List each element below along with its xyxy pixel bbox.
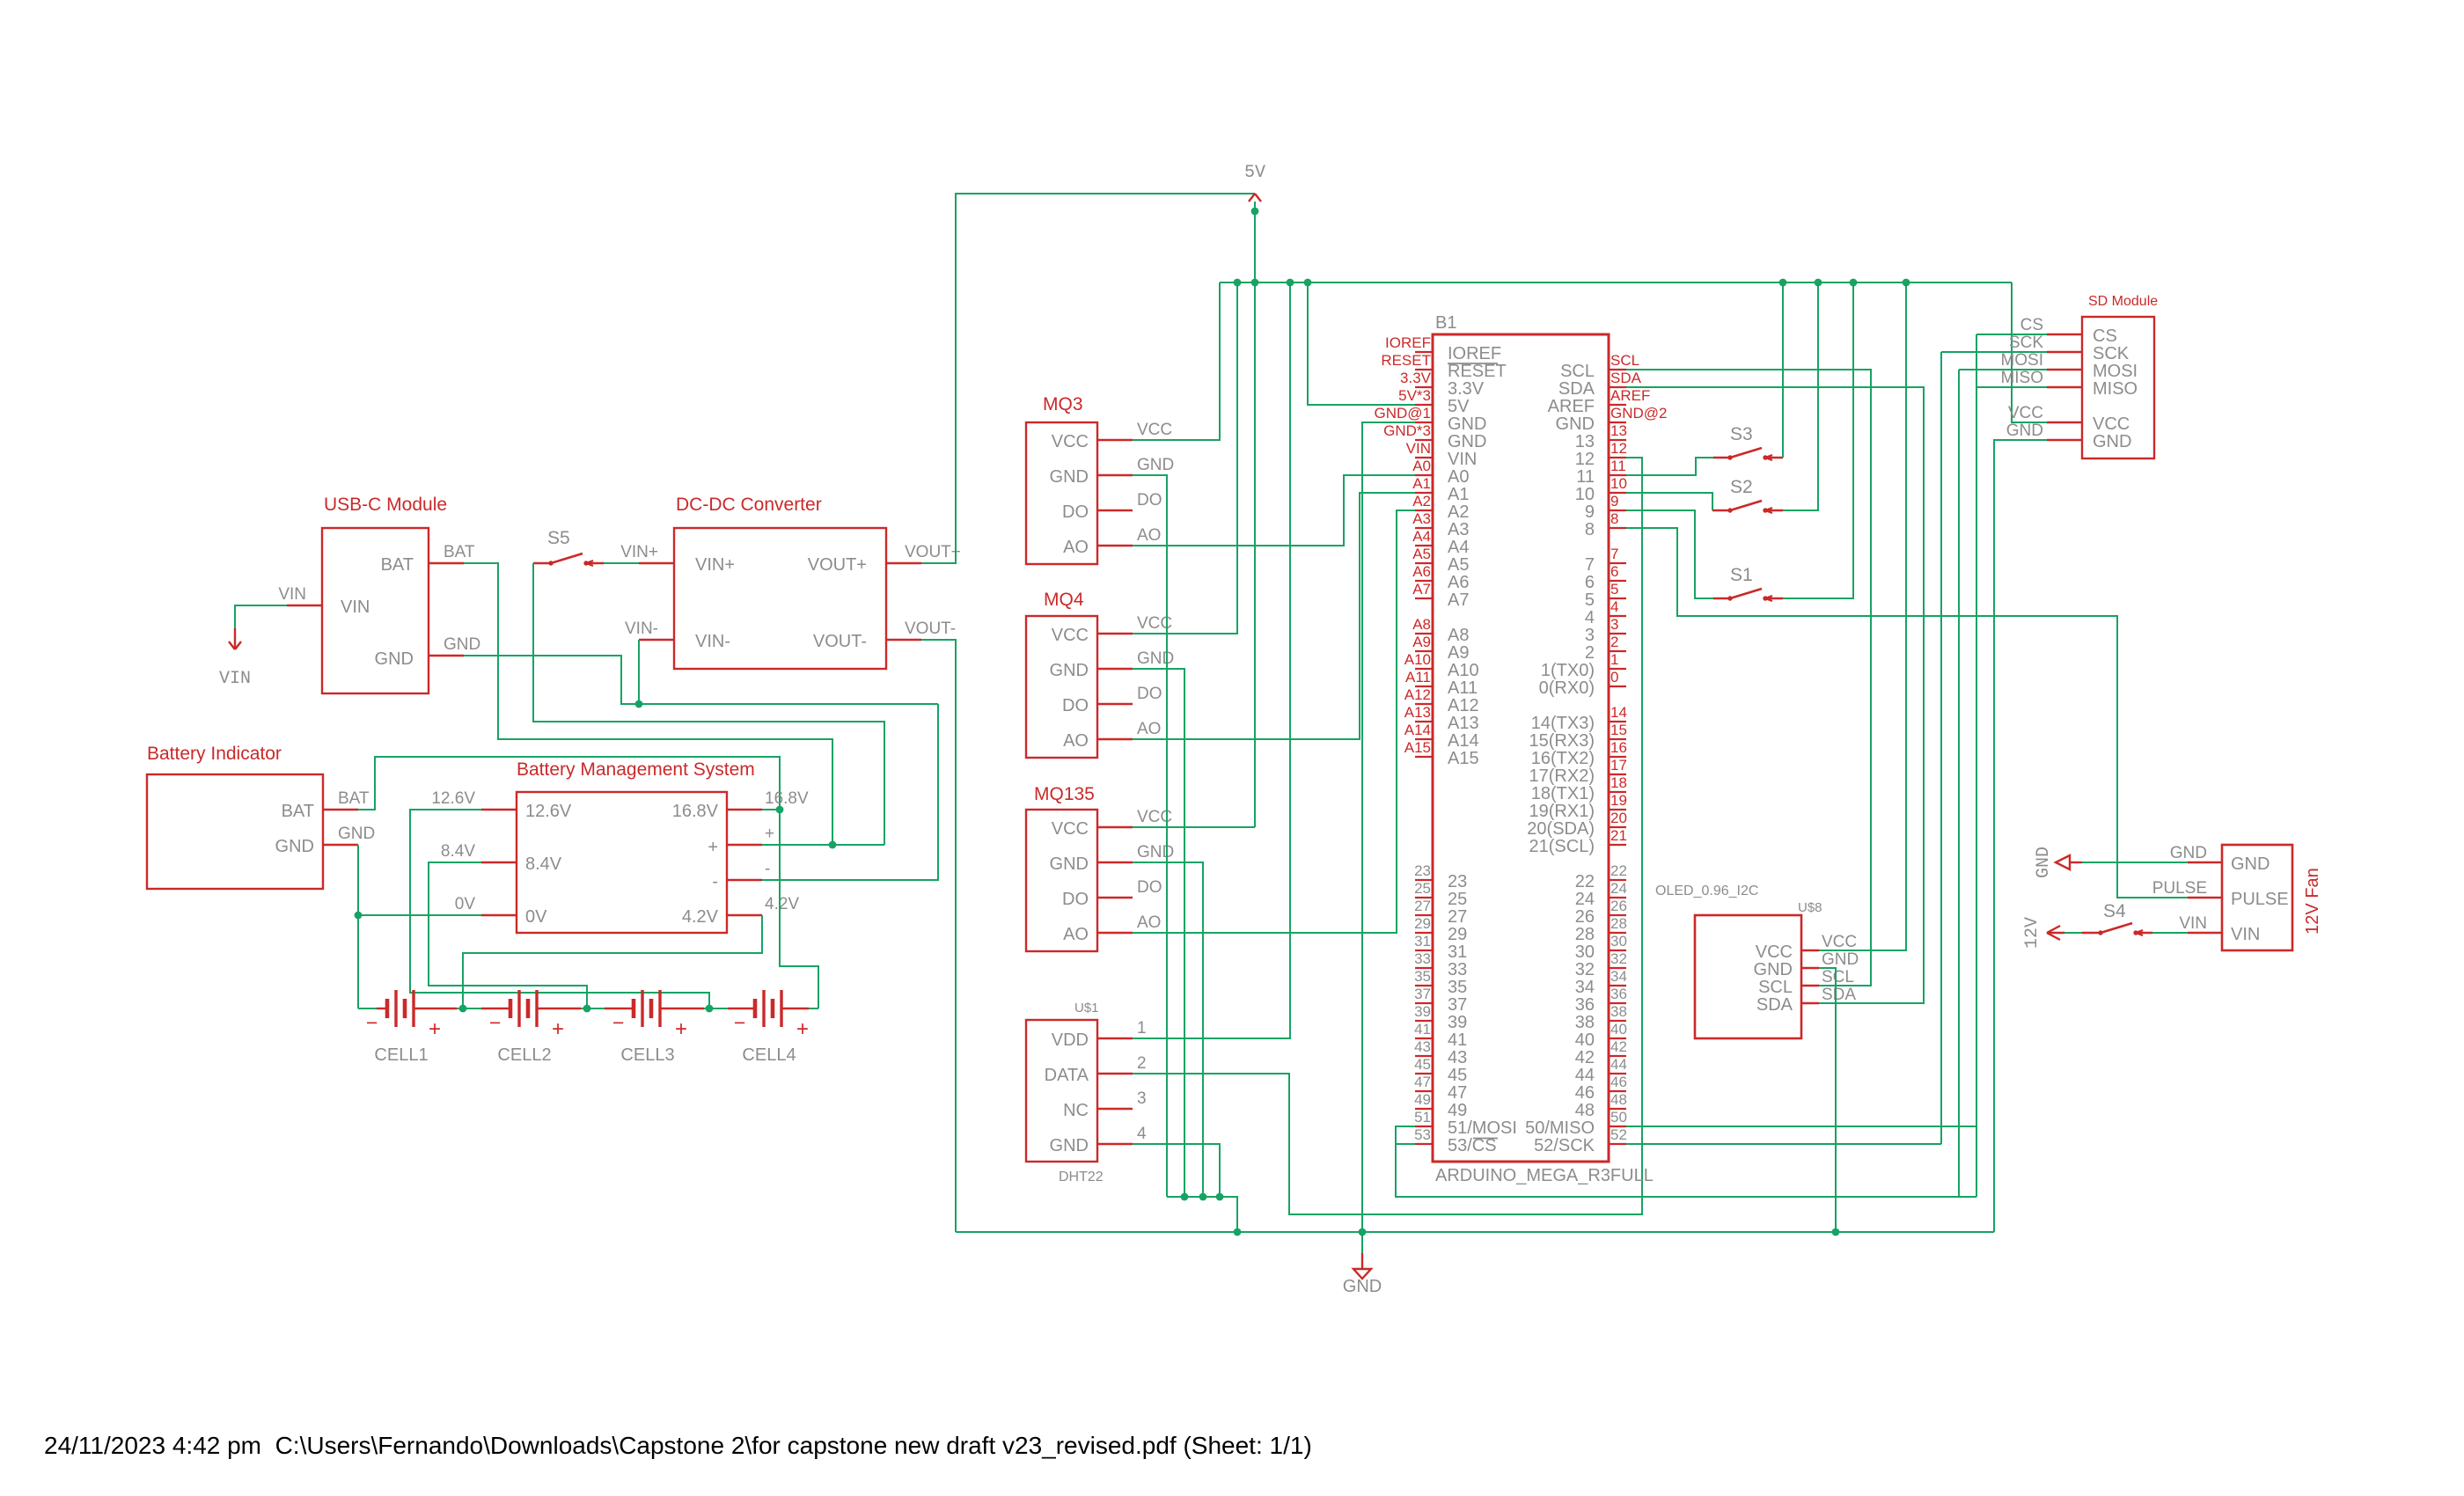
svg-text:GND: GND — [375, 649, 414, 669]
pin 40 right of B1 — [1609, 1038, 1626, 1039]
wire pin9 to S1 — [1626, 510, 1713, 598]
svg-text:3: 3 — [1137, 1089, 1147, 1108]
svg-text:VDD: VDD — [1052, 1030, 1089, 1050]
svg-text:SDA: SDA — [1822, 986, 1856, 1004]
Arduino RESET overline — [1448, 363, 1498, 364]
svg-text:GND: GND — [1137, 843, 1174, 862]
pin A1 left of B1 — [1415, 492, 1433, 494]
svg-text:20(SDA): 20(SDA) — [1527, 819, 1595, 839]
svg-text:31: 31 — [1414, 933, 1431, 950]
svg-text:51: 51 — [1414, 1109, 1431, 1126]
pin 3 right of B1 — [1609, 633, 1626, 634]
wire net pin51 MOSI — [1396, 1126, 1976, 1197]
ground symbol GND — [1361, 1253, 1363, 1269]
svg-text:7: 7 — [1610, 546, 1618, 562]
svg-text:GND@1: GND@1 — [1375, 405, 1432, 422]
pin 9 right of B1 — [1609, 510, 1626, 511]
wire S4 to fan VIN — [2152, 932, 2188, 934]
svg-text:A1: A1 — [1448, 485, 1469, 504]
pin 25 left of B1 — [1415, 897, 1433, 898]
wire net pin8 to fan PULSE — [1626, 528, 2188, 898]
svg-text:A14: A14 — [1448, 731, 1479, 751]
svg-text:28: 28 — [1575, 925, 1595, 944]
pin 4.2V of BMS — [727, 914, 762, 916]
wire SD MISO stub to riser — [1976, 386, 2047, 388]
pin A7 left of B1 — [1415, 598, 1433, 599]
svg-text:DO: DO — [1137, 685, 1162, 703]
svg-text:BAT: BAT — [381, 555, 414, 575]
svg-text:GND: GND — [1137, 649, 1174, 668]
svg-text:2: 2 — [1610, 634, 1618, 650]
pin AREF right of B1 — [1609, 404, 1626, 406]
svg-text:15: 15 — [1610, 722, 1627, 738]
wire MQ3 AO to A0 — [1133, 475, 1415, 546]
svg-text:7: 7 — [1585, 555, 1595, 575]
pin 32 right of B1 — [1609, 967, 1626, 969]
pin 34 right of B1 — [1609, 985, 1626, 986]
svg-text:GND: GND — [275, 837, 314, 856]
svg-text:VCC: VCC — [2093, 414, 2130, 434]
wire 5V drop to MQ4 VCC — [1133, 282, 1237, 634]
pin GND of 12V Fan — [2188, 862, 2222, 863]
svg-text:26: 26 — [1575, 907, 1595, 927]
svg-text:47: 47 — [1448, 1083, 1467, 1103]
svg-text:IOREF: IOREF — [1448, 344, 1501, 363]
pin VCC of MQ3 — [1097, 439, 1133, 441]
pin 16 right of B1 — [1609, 756, 1626, 758]
svg-text:VIN: VIN — [1448, 450, 1477, 469]
svg-text:GND@2: GND@2 — [1610, 405, 1668, 422]
svg-text:VIN+: VIN+ — [695, 555, 735, 575]
supply symbol 12V arrow — [2047, 926, 2060, 933]
svg-text:26: 26 — [1610, 898, 1627, 914]
switch S5 — [548, 561, 553, 565]
wire GND collector segment below sensors — [1167, 1197, 1237, 1232]
svg-text:DC-DC Converter: DC-DC Converter — [676, 495, 822, 515]
wire DHT22 DATA to Arduino pin 12 — [1133, 458, 1642, 1214]
junction CELL3-CELL4 — [706, 1005, 714, 1013]
wire net 0V to junction — [358, 914, 481, 916]
svg-text:27: 27 — [1448, 907, 1467, 927]
wire pin11 to S3 — [1626, 458, 1713, 475]
pin SCL of OLED — [1801, 985, 1819, 986]
switch S3 — [1727, 455, 1732, 459]
svg-text:A0: A0 — [1448, 467, 1469, 487]
svg-text:A15: A15 — [1404, 739, 1431, 756]
svg-text:VCC: VCC — [1137, 421, 1172, 439]
svg-text:39: 39 — [1414, 1003, 1431, 1020]
wire net VIN- to GND — [638, 640, 640, 704]
svg-text:A7: A7 — [1412, 581, 1431, 598]
svg-text:GND: GND — [1754, 960, 1793, 979]
pin A8 left of B1 — [1415, 633, 1433, 634]
wire net SDA to OLED — [1626, 387, 1924, 1003]
pin VIN left of B1 — [1415, 457, 1433, 458]
wire net GND to BMS minus — [762, 704, 938, 880]
svg-text:40: 40 — [1610, 1021, 1627, 1038]
svg-text:12.6V: 12.6V — [525, 802, 572, 821]
pin SDA right of B1 — [1609, 386, 1626, 388]
svg-text:A6: A6 — [1412, 563, 1431, 580]
wire CELL3 left lead — [587, 1008, 605, 1009]
svg-text:A5: A5 — [1448, 555, 1469, 575]
pin GND of USB-C Module — [429, 655, 464, 656]
svg-text:GND: GND — [1343, 1277, 1382, 1296]
svg-text:GND: GND — [1822, 950, 1859, 969]
svg-text:VOUT+: VOUT+ — [905, 543, 961, 561]
svg-text:A9: A9 — [1412, 634, 1431, 650]
wire DHT22 GND riser — [1133, 1144, 1220, 1197]
pin 41 left of B1 — [1415, 1038, 1433, 1039]
wire net 12.6V to CELL3+ — [410, 810, 709, 1008]
svg-text:22: 22 — [1575, 872, 1595, 891]
svg-text:PULSE: PULSE — [2152, 879, 2207, 898]
wire net BAT USB-C to +row — [464, 563, 832, 845]
battery CELL2 — [509, 999, 513, 1018]
pin 43 left of B1 — [1415, 1055, 1433, 1057]
svg-text:38: 38 — [1610, 1003, 1627, 1020]
pin A13 left of B1 — [1415, 721, 1433, 722]
DC-DC Converter box — [674, 528, 886, 669]
switch S1 — [1727, 596, 1732, 600]
pin VIN of USB-C Module — [287, 605, 322, 606]
svg-text:AREF: AREF — [1610, 387, 1650, 404]
svg-text:GND: GND — [1050, 467, 1089, 487]
svg-text:8: 8 — [1585, 520, 1595, 539]
svg-text:VCC: VCC — [1822, 933, 1857, 951]
junction GND VIN- — [635, 700, 643, 708]
pin 19 right of B1 — [1609, 809, 1626, 810]
svg-text:6: 6 — [1610, 563, 1618, 580]
svg-text:CELL2: CELL2 — [497, 1045, 551, 1065]
svg-text:3: 3 — [1610, 616, 1618, 633]
svg-text:−: − — [366, 1011, 378, 1034]
svg-text:SCL: SCL — [1560, 362, 1595, 381]
switch S4 — [2098, 930, 2102, 935]
pin A0 left of B1 — [1415, 474, 1433, 476]
wire net 5V vertical to MQ135 VCC — [1254, 202, 1256, 827]
svg-text:12: 12 — [1610, 440, 1627, 457]
pin IOREF left of B1 — [1415, 351, 1433, 353]
svg-text:GND: GND — [2093, 432, 2131, 451]
svg-text:VOUT+: VOUT+ — [808, 555, 867, 575]
svg-text:42: 42 — [1610, 1038, 1627, 1055]
svg-text:0V: 0V — [525, 907, 547, 927]
svg-text:−: − — [612, 1011, 624, 1034]
pin VCC of MQ135 — [1097, 826, 1133, 828]
svg-text:35: 35 — [1414, 968, 1431, 985]
svg-text:VOUT-: VOUT- — [813, 632, 867, 651]
wire Arduino GND@1 riser to GND bus — [1362, 422, 1415, 1253]
svg-text:16.8V: 16.8V — [765, 789, 809, 808]
svg-text:39: 39 — [1448, 1013, 1467, 1032]
pin 45 left of B1 — [1415, 1073, 1433, 1074]
pin 27 left of B1 — [1415, 914, 1433, 916]
svg-text:DO: DO — [1062, 696, 1089, 715]
svg-text:GND: GND — [1556, 414, 1595, 434]
svg-text:31: 31 — [1448, 942, 1467, 962]
svg-text:34: 34 — [1575, 978, 1595, 997]
svg-text:2: 2 — [1585, 643, 1595, 663]
svg-text:U$8: U$8 — [1798, 900, 1822, 915]
svg-text:U$1: U$1 — [1074, 1001, 1099, 1016]
svg-text:53: 53 — [1414, 1126, 1431, 1143]
junction CELL1-CELL2 — [459, 1005, 467, 1013]
svg-text:18: 18 — [1610, 774, 1627, 791]
svg-text:2: 2 — [1137, 1054, 1147, 1073]
svg-text:41: 41 — [1414, 1021, 1431, 1038]
wire MQ135 AO to A2 — [1133, 510, 1415, 933]
svg-text:ARDUINO_MEGA_R3FULL: ARDUINO_MEGA_R3FULL — [1435, 1166, 1654, 1185]
svg-text:47: 47 — [1414, 1074, 1431, 1090]
pin A4 left of B1 — [1415, 545, 1433, 546]
svg-text:AO: AO — [1137, 526, 1161, 545]
svg-text:12V Fan: 12V Fan — [2303, 868, 2322, 935]
svg-text:9: 9 — [1610, 493, 1618, 510]
sensor DHT22 U$1 box — [1026, 1020, 1097, 1162]
pin DO of MQ3 — [1097, 510, 1133, 511]
svg-text:0: 0 — [1610, 669, 1618, 686]
svg-text:A7: A7 — [1448, 590, 1469, 610]
svg-text:5V*3: 5V*3 — [1398, 387, 1431, 404]
pin VIN of 12V Fan — [2188, 932, 2222, 934]
svg-text:32: 32 — [1575, 960, 1595, 979]
svg-text:A14: A14 — [1404, 722, 1431, 738]
ground symbol at fan — [2056, 855, 2070, 869]
svg-text:17: 17 — [1610, 757, 1627, 774]
pin 39 left of B1 — [1415, 1020, 1433, 1022]
svg-text:VIN+: VIN+ — [620, 543, 658, 561]
pin 2 of DHT22 — [1097, 1073, 1133, 1074]
pin A3 left of B1 — [1415, 527, 1433, 529]
pin GND of MQ4 — [1097, 668, 1133, 670]
battery CELL3 — [632, 999, 636, 1018]
pin A15 left of B1 — [1415, 756, 1433, 758]
pin 46 right of B1 — [1609, 1090, 1626, 1092]
wire SD CS stub to riser — [1976, 334, 2047, 335]
wire CELL2 left lead — [463, 1008, 481, 1009]
junction MQ135 GND — [1199, 1193, 1207, 1201]
junction GND bus at GND symbol — [1359, 1228, 1367, 1236]
pin 14 right of B1 — [1609, 721, 1626, 722]
svg-text:17(RX2): 17(RX2) — [1529, 766, 1595, 786]
svg-text:22: 22 — [1610, 862, 1627, 879]
pin GND of MQ135 — [1097, 862, 1133, 863]
svg-text:+: + — [708, 838, 718, 857]
pin 49 left of B1 — [1415, 1108, 1433, 1110]
svg-text:CELL1: CELL1 — [374, 1045, 428, 1065]
svg-text:29: 29 — [1448, 925, 1467, 944]
pin GND of MQ3 — [1097, 474, 1133, 476]
svg-text:VIN: VIN — [2231, 925, 2260, 944]
svg-text:21: 21 — [1610, 827, 1627, 844]
pin 8 right of B1 — [1609, 527, 1626, 529]
svg-text:AO: AO — [1063, 538, 1089, 557]
junction 5V bus S1 — [1850, 279, 1858, 287]
svg-text:30: 30 — [1610, 933, 1627, 950]
wire S5 right stub — [586, 562, 604, 564]
svg-text:24: 24 — [1575, 890, 1595, 909]
svg-text:GND*3: GND*3 — [1383, 422, 1431, 439]
pin 30 right of B1 — [1609, 950, 1626, 951]
pin - of BMS — [727, 879, 762, 881]
wire net 8.4V to CELL2+ — [429, 862, 587, 1008]
svg-text:A4: A4 — [1448, 538, 1469, 557]
svg-text:18(TX1): 18(TX1) — [1531, 784, 1595, 803]
svg-text:SCL: SCL — [1758, 978, 1793, 997]
pin 44 right of B1 — [1609, 1073, 1626, 1074]
svg-text:AO: AO — [1063, 731, 1089, 751]
wire CELL4+ lead — [781, 1008, 809, 1009]
svg-text:49: 49 — [1448, 1101, 1467, 1120]
svg-text:11: 11 — [1576, 467, 1595, 487]
svg-text:23: 23 — [1448, 872, 1467, 891]
junction 5V bus riser — [1251, 279, 1259, 287]
wire net CS riser — [1976, 334, 1977, 1197]
svg-text:19(RX1): 19(RX1) — [1529, 802, 1595, 821]
pin 20 right of B1 — [1609, 826, 1626, 828]
pin A9 left of B1 — [1415, 650, 1433, 652]
svg-text:VOUT-: VOUT- — [905, 620, 956, 638]
svg-text:3.3V: 3.3V — [1448, 379, 1485, 399]
pin 2 right of B1 — [1609, 650, 1626, 652]
svg-text:5V: 5V — [1244, 163, 1265, 183]
wire CELL3+ lead — [660, 1008, 704, 1009]
wire 5V drop to SD VCC — [2012, 282, 2047, 422]
wire net pin50 MISO row — [1626, 1126, 1976, 1127]
svg-text:SD Module: SD Module — [2088, 294, 2158, 309]
svg-text:23: 23 — [1414, 862, 1431, 879]
svg-text:S3: S3 — [1730, 424, 1753, 444]
junction CELL2-CELL3 — [583, 1005, 591, 1013]
svg-text:SDA: SDA — [1756, 995, 1793, 1015]
pin 4 right of B1 — [1609, 615, 1626, 617]
svg-text:0V: 0V — [455, 895, 476, 913]
Battery Management System box — [517, 792, 727, 933]
pin RESET left of B1 — [1415, 369, 1433, 370]
wire S2 to 5V bus — [1765, 510, 1783, 511]
svg-text:+: + — [765, 825, 774, 843]
junction DHT22 GND — [1216, 1193, 1224, 1201]
wire net S5-left to BMS + row — [533, 563, 884, 845]
junction + S5 — [829, 841, 837, 849]
svg-text:36: 36 — [1610, 986, 1627, 1002]
svg-text:30: 30 — [1575, 942, 1595, 962]
wire net SCK riser — [1940, 352, 1942, 1144]
svg-text:SCL: SCL — [1822, 968, 1854, 986]
pin 0V of BMS — [481, 914, 517, 916]
pin 12 right of B1 — [1609, 457, 1626, 458]
svg-text:41: 41 — [1448, 1030, 1467, 1050]
svg-text:A2: A2 — [1412, 493, 1431, 510]
12V Fan box — [2222, 845, 2292, 950]
junction MQ4 GND — [1181, 1193, 1189, 1201]
svg-text:PULSE: PULSE — [2231, 890, 2289, 909]
svg-text:43: 43 — [1414, 1038, 1431, 1055]
svg-text:52: 52 — [1610, 1126, 1627, 1143]
svg-text:SDA: SDA — [1558, 379, 1595, 399]
svg-text:52/SCK: 52/SCK — [1534, 1136, 1595, 1155]
wire MQ3 GND riser — [1133, 475, 1167, 1197]
svg-text:GND: GND — [2170, 844, 2207, 862]
pin 52 right of B1 — [1609, 1143, 1626, 1145]
pin 23 left of B1 — [1415, 879, 1433, 881]
svg-text:S1: S1 — [1730, 565, 1753, 585]
wire CELL2+ lead — [537, 1008, 581, 1009]
wire fan GND to ground symbol — [2082, 862, 2188, 863]
svg-text:35: 35 — [1448, 978, 1467, 997]
svg-text:24/11/2023 4:42 pm C:\Users\F: 24/11/2023 4:42 pm C:\Users\Fernando\Dow… — [44, 1432, 1312, 1459]
svg-text:10: 10 — [1575, 485, 1595, 504]
pin 17 right of B1 — [1609, 774, 1626, 775]
svg-text:51/MOSI: 51/MOSI — [1448, 1118, 1517, 1138]
pin GND@1 left of B1 — [1415, 422, 1433, 423]
svg-text:GND: GND — [1448, 432, 1486, 451]
svg-text:33: 33 — [1414, 950, 1431, 967]
pin GND of OLED — [1801, 967, 1819, 969]
pin 22 right of B1 — [1609, 879, 1626, 881]
wire 5V to MQ135 VCC — [1133, 826, 1255, 828]
Arduino 53/CS overline — [1473, 1138, 1498, 1140]
svg-text:A1: A1 — [1412, 475, 1431, 492]
pin A12 left of B1 — [1415, 703, 1433, 705]
pin 24 right of B1 — [1609, 897, 1626, 898]
pin 47 left of B1 — [1415, 1090, 1433, 1092]
pin VIN- of DC-DC — [639, 639, 674, 641]
pin 21 right of B1 — [1609, 844, 1626, 846]
svg-text:4: 4 — [1137, 1125, 1147, 1143]
junction 5V bus OLED VCC — [1903, 279, 1910, 287]
junction 5V bus S2 — [1815, 279, 1822, 287]
svg-text:AO: AO — [1063, 925, 1089, 944]
wire MQ4 GND riser — [1133, 669, 1184, 1197]
USB-C Module U-USB box — [322, 528, 429, 693]
svg-text:+: + — [675, 1017, 687, 1041]
wire net 5V VOUT+ riser — [921, 194, 1255, 563]
junction GND bus at OLED GND riser — [1832, 1228, 1840, 1236]
pin VOUT+ of DC-DC — [886, 562, 921, 564]
svg-text:8.4V: 8.4V — [525, 854, 562, 874]
pin VOUT- of DC-DC — [886, 639, 921, 641]
svg-text:15(RX3): 15(RX3) — [1529, 731, 1595, 751]
svg-text:GND: GND — [1050, 1136, 1089, 1155]
svg-text:A11: A11 — [1448, 678, 1478, 698]
svg-text:33: 33 — [1448, 960, 1467, 979]
pin DO of MQ4 — [1097, 703, 1133, 705]
pin 35 left of B1 — [1415, 985, 1433, 986]
svg-text:A2: A2 — [1448, 502, 1469, 522]
svg-text:NC: NC — [1063, 1101, 1089, 1120]
svg-text:S5: S5 — [547, 528, 570, 548]
wire net SCL to OLED — [1626, 370, 1871, 986]
svg-text:MISO: MISO — [2093, 379, 2138, 399]
svg-text:38: 38 — [1575, 1013, 1595, 1032]
junction 5V below arrow — [1251, 208, 1259, 216]
svg-text:-: - — [712, 872, 718, 891]
wire 5V drop to MQ3 VCC — [1133, 282, 1220, 440]
svg-text:GND: GND — [1050, 661, 1089, 680]
svg-text:CELL4: CELL4 — [742, 1045, 796, 1065]
svg-text:19: 19 — [1610, 792, 1627, 809]
svg-text:VCC: VCC — [1052, 626, 1089, 645]
wire net + row — [762, 844, 884, 846]
svg-text:A12: A12 — [1448, 696, 1479, 715]
svg-text:4.2V: 4.2V — [765, 895, 799, 913]
svg-text:34: 34 — [1610, 968, 1627, 985]
wire S5 left stub — [533, 562, 551, 564]
pin 26 right of B1 — [1609, 914, 1626, 916]
svg-text:−: − — [734, 1011, 745, 1034]
